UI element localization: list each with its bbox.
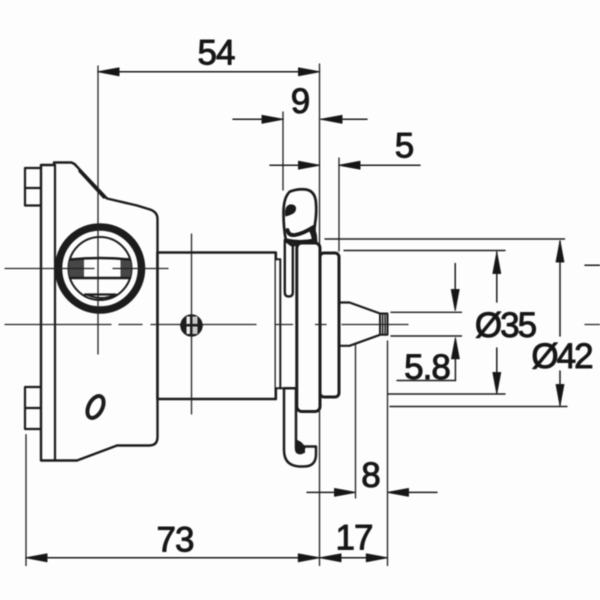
dim Ø42: [559, 241, 561, 336]
screw vertical centerline: [191, 234, 193, 414]
cover inner circle: [69, 237, 132, 300]
clamp lower hook: [284, 388, 316, 466]
clamp ear slot lower edge: [288, 227, 314, 235]
cover bottom small arc: [87, 295, 116, 299]
svg-text:9: 9: [291, 82, 309, 121]
cover outer ring: [59, 227, 142, 310]
bottom mounting tab bolt: [25, 387, 42, 429]
drain oval hole: [84, 393, 107, 420]
dim 73: [25, 435, 27, 566]
flange plate (Ø42): [297, 243, 320, 412]
cover vertical centerline / 54 left extension: [97, 66, 99, 354]
bearing housing cylinder: [158, 253, 276, 400]
cover horizontal centerline: [5, 268, 94, 270]
cover screw slot chords: [70, 258, 129, 260]
dim 17: [320, 557, 387, 559]
clamp lower hook inner corner: [296, 440, 306, 454]
dim 5.8 arrows and leader: [454, 264, 456, 294]
top mounting tab bolt: [25, 168, 42, 206]
svg-text:Ø35: Ø35: [475, 306, 536, 345]
dim Ø35: [496, 252, 498, 302]
step to lower hook strip: [280, 387, 283, 389]
shaft cone upper: [339, 303, 380, 314]
dim 8: [355, 345, 357, 498]
svg-text:8: 8: [361, 456, 379, 495]
clamp ear slot hook head: [285, 204, 296, 216]
svg-text:17: 17: [336, 519, 373, 558]
dim 5: [338, 158, 340, 251]
cover screw slot right shaded end: [121, 258, 132, 278]
clamp upper strip: [285, 240, 293, 297]
cam screw: [182, 316, 202, 336]
mounting plate inner edge: [54, 165, 56, 461]
cover screw slot left shaded end: [69, 258, 84, 278]
clamp upper ear: [284, 189, 317, 245]
svg-text:5.8: 5.8: [404, 348, 450, 387]
dim 9: [282, 112, 284, 190]
dim Ø35 extension lines: [344, 250, 505, 252]
svg-text:5: 5: [395, 127, 413, 166]
svg-text:54: 54: [198, 34, 235, 73]
dim 5.8 extension lines: [391, 311, 462, 313]
svg-text:Ø42: Ø42: [531, 337, 592, 376]
ear tip wedge over plate corner: [310, 229, 317, 242]
thin collar behind flange: [276, 259, 281, 388]
shaft splined tip: [380, 314, 388, 335]
shaft cone lower: [339, 335, 380, 346]
pump body outline: [41, 163, 158, 461]
dim 54: [98, 71, 320, 73]
main axis centerline: [5, 324, 600, 326]
top slope shadow line: [80, 171, 104, 197]
hub disc (Ø35): [320, 253, 339, 397]
ear bottom band: [287, 241, 315, 243]
right edge dash upper: [585, 264, 600, 266]
dim Ø42 extension lines: [325, 238, 565, 240]
svg-text:73: 73: [157, 521, 194, 560]
